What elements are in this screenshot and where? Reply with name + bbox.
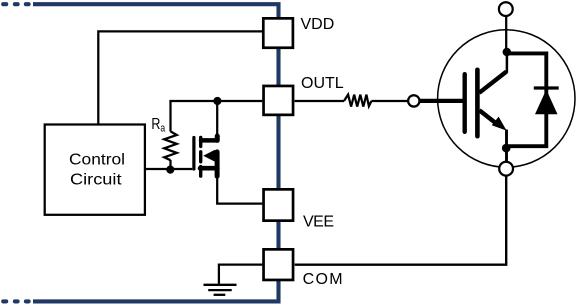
- svg-text:OUTL: OUTL: [301, 75, 344, 92]
- svg-text:Control: Control: [69, 152, 125, 169]
- svg-text:COM: COM: [303, 271, 344, 288]
- svg-text:Circuit: Circuit: [70, 171, 122, 188]
- svg-text:VDD: VDD: [301, 16, 335, 33]
- svg-text:Ra: Ra: [151, 116, 165, 135]
- svg-text:VEE: VEE: [303, 213, 334, 230]
